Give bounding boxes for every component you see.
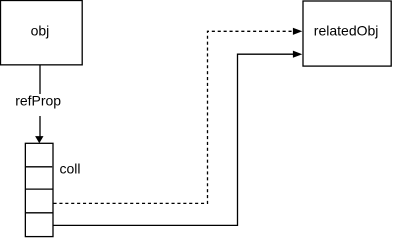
cell divider 3 xyxy=(25,212,53,214)
cell divider 1 xyxy=(25,166,52,168)
box obj xyxy=(1,1,83,65)
box relatedObj xyxy=(303,1,391,66)
cell divider 2 xyxy=(25,188,53,190)
solid link coll cell4 to relatedObj xyxy=(54,54,294,225)
arrowhead solid link xyxy=(293,51,302,58)
arrowhead refProp xyxy=(35,136,43,143)
arrowhead dashed link xyxy=(293,28,302,35)
svg-text:relatedObj: relatedObj xyxy=(314,22,379,38)
svg-text:obj: obj xyxy=(31,22,50,38)
svg-text:coll: coll xyxy=(60,161,81,177)
wire refProp link xyxy=(39,65,41,138)
label refProp xyxy=(14,93,65,116)
collection coll xyxy=(25,143,53,236)
svg-text:refProp: refProp xyxy=(15,93,61,109)
dashed link coll cell3 to relatedObj xyxy=(54,31,294,203)
